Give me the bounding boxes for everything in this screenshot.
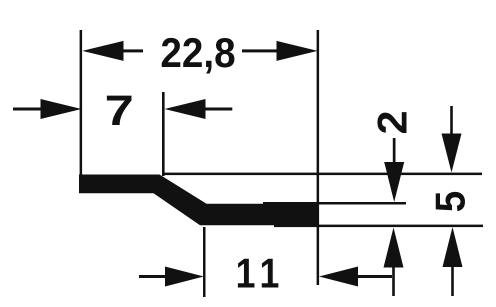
svg-text:5: 5 (426, 191, 474, 212)
svg-text:2: 2 (369, 110, 416, 134)
dim 2 line (393, 138, 396, 164)
dim 5 down arrow (442, 134, 462, 173)
dim 22,8 left line (123, 49, 143, 52)
svg-text:11: 11 (236, 251, 286, 297)
dim 11 left line (139, 275, 167, 278)
dim 2 up arrow (384, 228, 404, 268)
svg-text:22,8: 22,8 (160, 28, 235, 76)
extension line left edge (80, 30, 83, 176)
dim 11 right arrow (319, 267, 358, 287)
dim 7 left arrow (41, 99, 82, 119)
dim 5 top tail (450, 106, 453, 134)
svg-text:7: 7 (105, 87, 134, 135)
dim 7 right arrow (165, 99, 206, 119)
dim 22,8 right line (242, 49, 277, 52)
dim 5 up arrow (443, 227, 463, 267)
dim 2 down arrow (384, 162, 404, 202)
dim 11 right line (358, 275, 393, 278)
top surface reference line (163, 173, 482, 176)
bottom surface reference line (274, 225, 483, 228)
dim 2 up arrow tail (392, 267, 395, 296)
extension line right edge (317, 30, 320, 285)
dim 5 up arrow tail (451, 267, 454, 297)
dim 7 left line (13, 108, 41, 111)
dim 22,8 left arrow (82, 41, 123, 61)
extension line at 7mm (162, 92, 165, 176)
dim 22,8 right arrow (277, 41, 318, 61)
part profile (bent sheet cross-section) (79, 175, 318, 226)
dim 7 right line (205, 108, 232, 111)
mid surface reference line (263, 202, 406, 205)
extension line at slope end (11mm) (203, 227, 206, 297)
dim 11 left arrow (165, 267, 204, 287)
